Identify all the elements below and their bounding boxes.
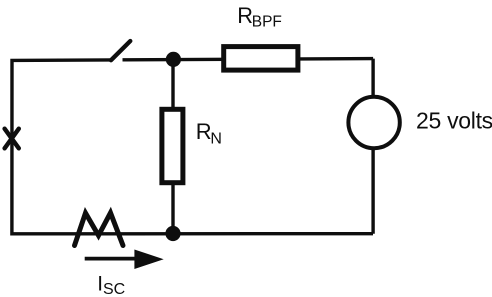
svg-text:RBPF: RBPF bbox=[237, 3, 282, 30]
svg-text:ISC: ISC bbox=[97, 272, 125, 297]
svg-text:25 volts: 25 volts bbox=[416, 108, 492, 134]
svg-text:RN: RN bbox=[196, 119, 222, 147]
